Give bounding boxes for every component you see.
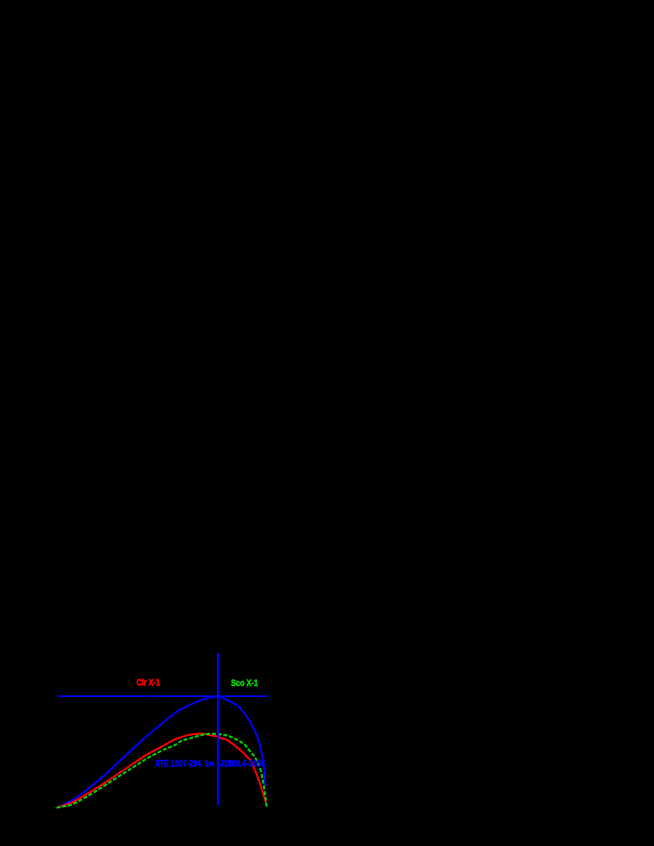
- red curve: Cir X-1 track: [57, 734, 266, 808]
- green dashed curve: Sco X-1 track: [57, 734, 267, 808]
- svg-text:Cir X-1: Cir X-1: [137, 678, 161, 688]
- blue curve: atoll track (Sax J1808.4-3658 / XTE 1807-294): [57, 697, 266, 808]
- svg-text:Sax: Sax: [205, 759, 215, 769]
- svg-text:J1808.4-3658: J1808.4-3658: [220, 759, 265, 769]
- gap artifact in horizontal line: [163, 695, 164, 698]
- svg-text:XTE 1807-294: XTE 1807-294: [155, 759, 201, 769]
- horizontal blue axis line: [58, 695, 268, 697]
- svg-text:Sco X-1: Sco X-1: [231, 678, 258, 688]
- gap artifact in horizontal line: [148, 695, 149, 698]
- vertical blue axis line: [217, 653, 219, 806]
